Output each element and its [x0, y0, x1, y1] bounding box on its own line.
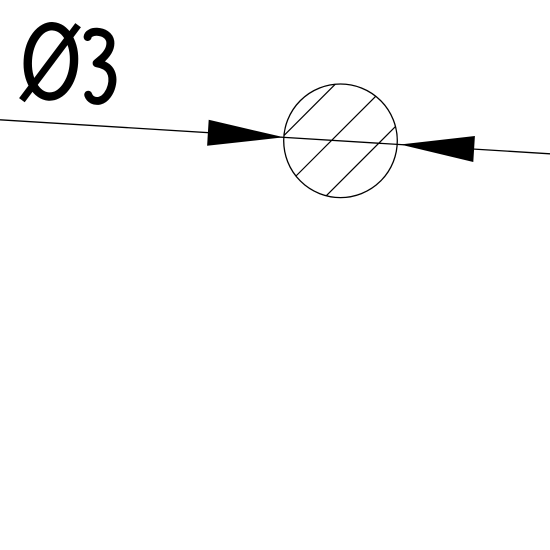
- right arrowhead: [400, 136, 475, 162]
- hatch line 1: [284, 84, 335, 135]
- dimension text Ø3 : digit 3: [88, 32, 113, 101]
- dimension text Ø3 : letter O of diameter symbol: [26, 25, 76, 98]
- hatch line 3: [326, 127, 395, 196]
- section circle: [284, 84, 398, 198]
- left arrowhead: [207, 120, 284, 146]
- dimension line: [0, 120, 550, 154]
- dimension text Ø3 : slash of diameter symbol: [22, 25, 78, 100]
- hatch line 2: [296, 96, 376, 176]
